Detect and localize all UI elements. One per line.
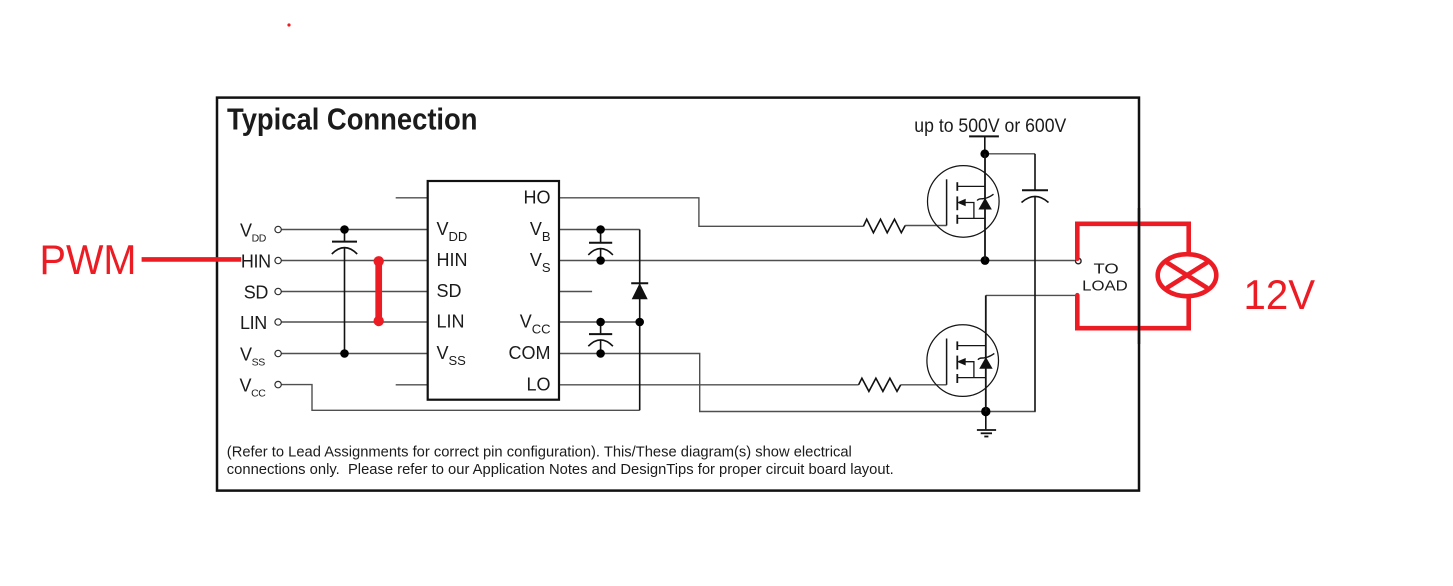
node VDD-C1 xyxy=(340,225,349,234)
ground bar 3 xyxy=(984,436,988,438)
red link HIN-LIN segment xyxy=(375,261,382,321)
capacitor C1 curved plate xyxy=(332,248,357,254)
Q1 drain column xyxy=(984,154,986,261)
input terminal circles xyxy=(275,226,281,387)
capacitor C2 flat plate xyxy=(589,242,612,244)
node VCC-D1 xyxy=(635,318,644,327)
Q1 channel dash mid xyxy=(956,196,958,210)
wire VSS input xyxy=(281,353,427,355)
svg-text:12V: 12V xyxy=(1244,271,1316,318)
svg-text:SD: SD xyxy=(244,283,269,303)
Q2 body arrow xyxy=(958,358,966,365)
Q2 drain column xyxy=(985,295,987,411)
svg-text:VSS: VSS xyxy=(240,345,265,369)
svg-text:LO: LO xyxy=(526,374,550,394)
svg-text:PWM: PWM xyxy=(40,236,137,283)
svg-text:(Refer to Lead Assignments for: (Refer to Lead Assignments for correct p… xyxy=(227,445,852,461)
Q2 body diode triangle xyxy=(980,358,992,368)
wire stub right SD row xyxy=(559,291,592,293)
node COM-C3 xyxy=(596,349,605,358)
capacitor C2 curved plate xyxy=(588,249,613,255)
Q2 channel dash bottom xyxy=(956,374,958,383)
Q2 drain link xyxy=(957,345,986,347)
wire VB row xyxy=(559,229,640,231)
capacitor C1 flat plate xyxy=(332,241,357,243)
wire LO to gate resistor R2 xyxy=(559,384,859,386)
lamp cross stroke 2 xyxy=(1167,262,1208,288)
wire VDD input xyxy=(281,229,427,231)
wire R2 to Q2 gate xyxy=(901,384,947,386)
lamp cross stroke 1 xyxy=(1167,262,1208,288)
wire HO to gate resistor R1 xyxy=(559,198,863,227)
svg-text:LOAD: LOAD xyxy=(1082,278,1128,294)
node Q2 source rail xyxy=(981,407,990,416)
node VB-C2 xyxy=(596,225,605,234)
ground bar 2 xyxy=(981,432,992,434)
wire VCC row xyxy=(559,321,640,323)
node Q1 source VS xyxy=(981,256,990,265)
wire Q2 drain to load xyxy=(986,294,1076,296)
MOSFET Q2 xyxy=(927,295,999,411)
wire HIN input xyxy=(281,260,427,262)
svg-text:up to 500V or 600V: up to 500V or 600V xyxy=(914,116,1066,137)
resistor R1 xyxy=(863,219,905,233)
svg-text:TO: TO xyxy=(1094,261,1119,277)
MOSFET Q1 xyxy=(928,154,1000,261)
Q2 body link xyxy=(964,362,974,378)
terminal VDD xyxy=(275,226,281,232)
Q1 body link xyxy=(964,203,974,219)
wire R1 to Q1 gate xyxy=(905,225,946,227)
red annotation group xyxy=(142,224,1217,328)
ground stub xyxy=(985,412,987,430)
terminal HIN xyxy=(275,257,281,263)
capacitor C3 curved plate xyxy=(588,340,613,346)
capacitor C1 vertical leads xyxy=(344,230,346,241)
Q1 drain link xyxy=(957,185,985,187)
wire VCC input bend xyxy=(281,385,639,411)
red load box lower half xyxy=(1077,295,1188,328)
snubber capacitor C4 top lead xyxy=(1034,154,1036,190)
terminal SD xyxy=(275,288,281,294)
Q1 channel dash top xyxy=(956,182,958,191)
stray red dot xyxy=(287,23,290,26)
red dot on HIN-LIN segment top xyxy=(374,256,384,266)
terminal VCC xyxy=(275,381,281,387)
svg-text:LIN: LIN xyxy=(437,312,465,332)
transistor Q2 body circle xyxy=(927,325,999,397)
IC pin labels xyxy=(437,187,551,394)
capacitor C2 bootstrap leads xyxy=(600,230,602,243)
frame right edge over red xyxy=(1138,208,1141,344)
Q2 gate bar xyxy=(946,339,948,385)
svg-text:SD: SD xyxy=(437,281,462,301)
bus drop wire xyxy=(984,136,986,153)
outer pin labels xyxy=(240,221,271,400)
wire COM bend to low source rail xyxy=(559,354,1036,412)
Q2 body diode cathode tilde xyxy=(978,353,994,359)
wire bus to snubber cap xyxy=(985,153,1035,155)
resistor R2 xyxy=(859,378,901,391)
Q2 channel dash mid xyxy=(956,356,958,370)
IC block U1 xyxy=(428,181,559,400)
outer frame xyxy=(217,98,1139,491)
diode D1 triangle xyxy=(633,284,647,298)
node VS-C2 xyxy=(596,256,605,265)
svg-text:HIN: HIN xyxy=(241,252,271,272)
Q1 gate bar xyxy=(946,179,948,225)
diode D1 column xyxy=(639,230,641,411)
capacitor C4 curved plate xyxy=(1022,196,1049,202)
node VSS-C1 xyxy=(340,349,349,358)
Q1 channel dash bottom xyxy=(956,215,958,224)
capacitor C3 vcc leads xyxy=(600,322,602,333)
svg-text:Typical Connection: Typical Connection xyxy=(227,102,478,137)
red load box upper half xyxy=(1077,224,1188,259)
svg-text:VCC: VCC xyxy=(240,376,267,400)
bus bar up to 500V xyxy=(969,135,999,137)
svg-text:COM: COM xyxy=(509,343,551,363)
Q1 source link xyxy=(957,217,985,219)
load terminal upper circle xyxy=(1076,258,1082,264)
node VCC-C3 xyxy=(596,318,605,327)
svg-text:VDD: VDD xyxy=(240,221,267,245)
ground bar 1 xyxy=(977,429,996,431)
red wire PWM to HIN xyxy=(142,257,242,262)
wire SD input xyxy=(281,291,427,293)
node bus junction xyxy=(980,149,989,158)
svg-text:LIN: LIN xyxy=(240,313,267,333)
capacitor C4 flat plate xyxy=(1022,189,1048,191)
terminal LIN xyxy=(275,319,281,325)
terminal VSS xyxy=(275,350,281,356)
Q2 source link xyxy=(957,377,986,379)
Q2 channel dash top xyxy=(956,341,958,350)
svg-text:connections only. Please refe: connections only. Please refer to our Ap… xyxy=(227,462,894,478)
lamp bulb circle xyxy=(1158,254,1217,296)
capacitor C3 flat plate xyxy=(589,333,612,335)
wire VS row to load xyxy=(559,260,1075,262)
red dot on HIN-LIN segment bottom xyxy=(374,316,384,326)
capacitor C4 bottom lead to rail xyxy=(1034,196,1036,411)
svg-text:HIN: HIN xyxy=(437,250,468,270)
Q1 body diode cathode tilde xyxy=(977,194,993,200)
junction dots xyxy=(340,149,990,416)
Q1 body diode triangle xyxy=(979,199,991,209)
diode D1 cathode bar xyxy=(631,282,648,284)
Q1 body arrow xyxy=(958,199,966,206)
transistor Q1 body circle xyxy=(928,166,1000,238)
wire stub left HO row xyxy=(396,197,428,199)
wire stub left LO row xyxy=(396,384,428,386)
wire LIN input xyxy=(281,321,427,323)
svg-text:HO: HO xyxy=(524,187,551,207)
